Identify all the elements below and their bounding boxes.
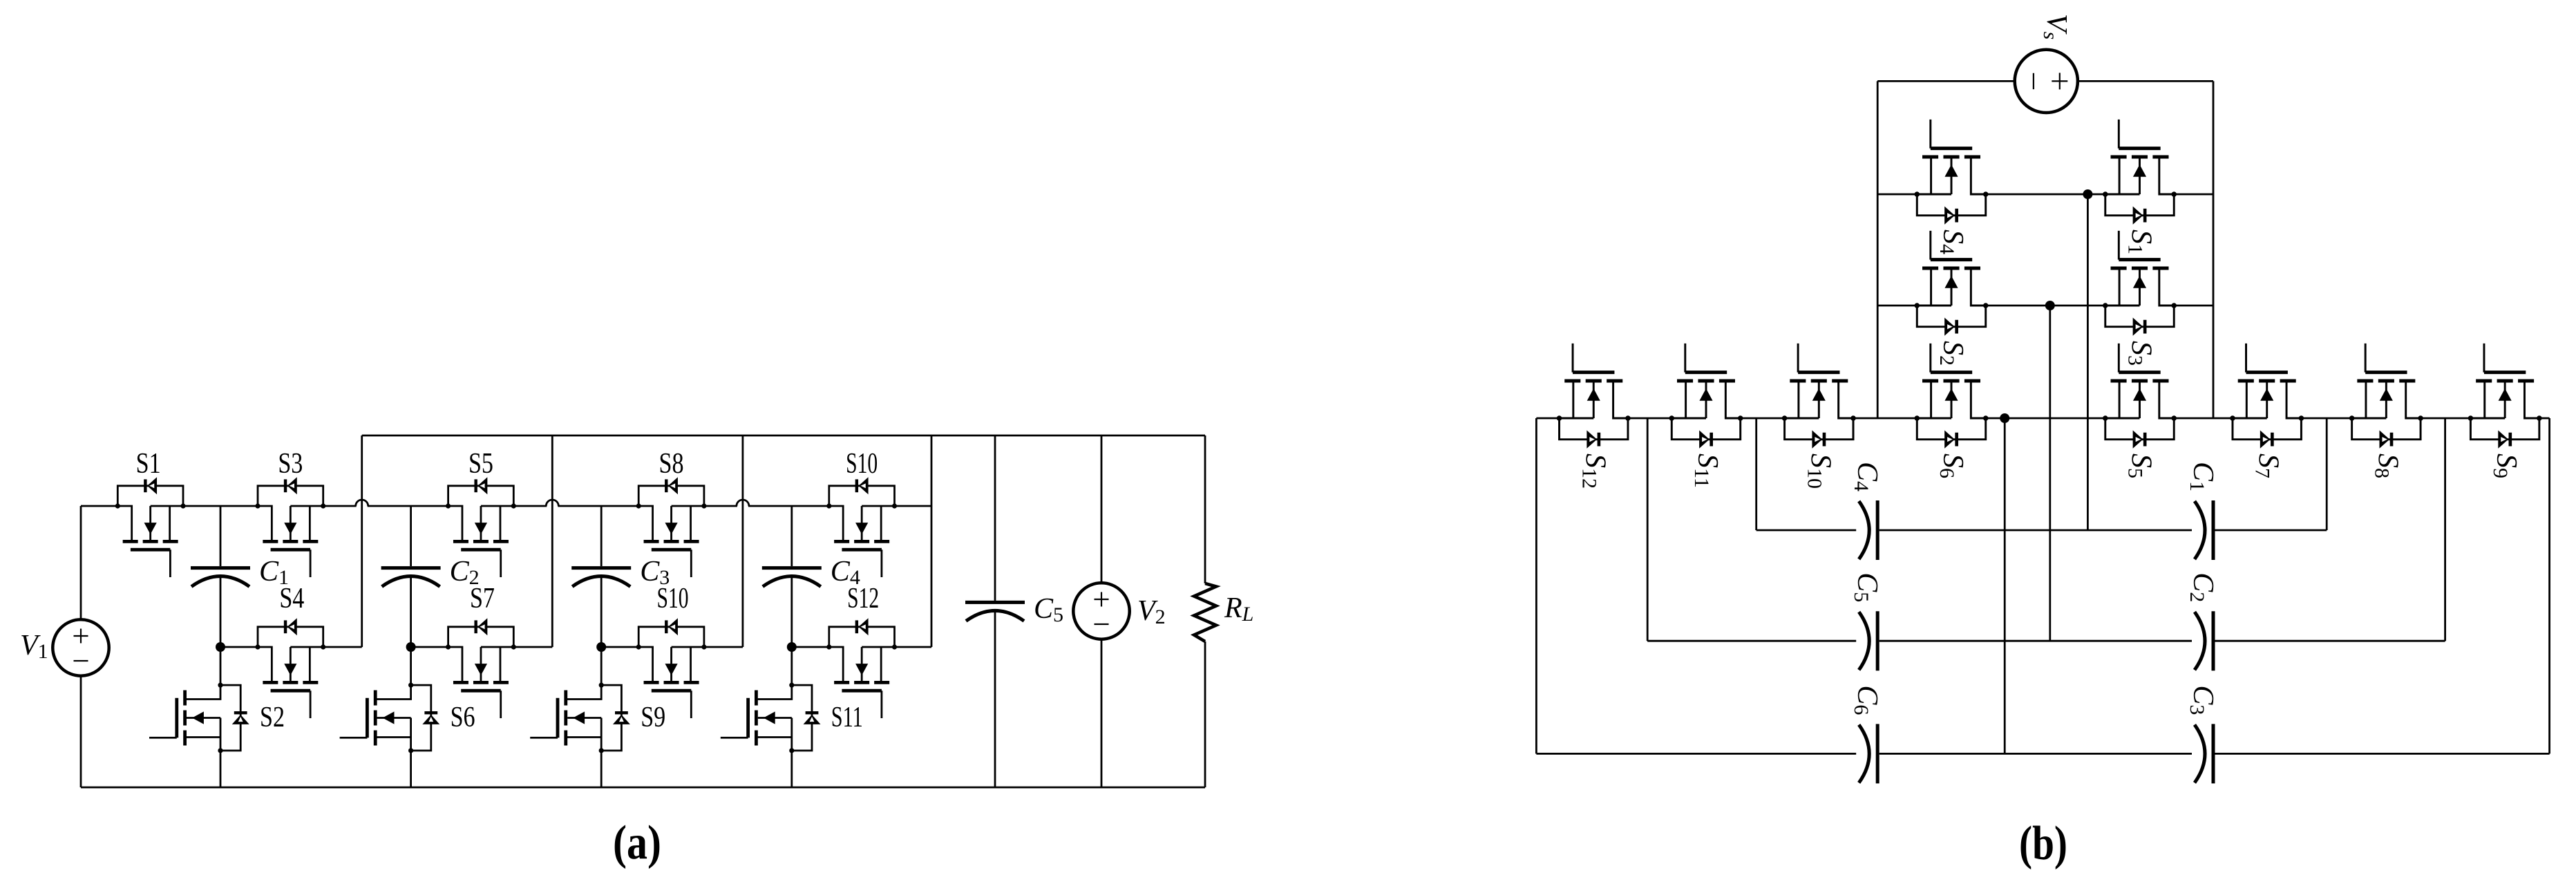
wire V1 bottom lead <box>80 676 82 787</box>
wire bottom row segment <box>2421 418 2470 420</box>
wire lower switch to bottom rail <box>600 751 603 787</box>
wire C3 rail right <box>2215 753 2550 755</box>
node dot cell 1 <box>216 642 225 652</box>
wire C1 to lower switch <box>220 576 222 686</box>
svg-text:S8: S8 <box>659 448 684 480</box>
node dot B <box>2045 301 2055 310</box>
transistor S10 (MOSFET with body diode) <box>1782 344 1856 449</box>
capacitor C1 <box>2195 500 2213 560</box>
wire node to mid switch <box>792 646 829 648</box>
transistor S2 (MOSFET with body diode) <box>1915 231 1989 336</box>
transistor S5 (MOSFET with body diode) <box>446 477 516 577</box>
transistor S5 (MOSFET with body diode) <box>2103 344 2177 449</box>
wire C5 rail left <box>1647 640 1856 642</box>
wire mid switch to bus vertical <box>895 646 932 648</box>
wire node to mid switch <box>220 646 258 648</box>
wire mid switch to bus vertical <box>704 646 743 648</box>
wire lower switch to bottom rail <box>410 751 412 787</box>
wire node B vertical <box>2049 306 2051 641</box>
wire input to S1 <box>81 505 117 507</box>
transistor S3 (MOSFET with body diode) <box>255 477 325 577</box>
transistor S9 (MOSFET with body diode) <box>2468 344 2542 449</box>
wire C5-C2 rail centre <box>1879 640 2192 642</box>
transistor S8 (MOSFET with body diode) <box>636 477 707 577</box>
capacitor C1 <box>191 568 250 587</box>
node dot A <box>2083 189 2092 199</box>
wire node C vertical <box>2004 418 2006 753</box>
capacitor C4 <box>1859 500 1877 560</box>
transistor S11 (MOSFET with body diode) <box>1669 344 1743 449</box>
capacitor C5 <box>965 602 1025 621</box>
node dot C <box>2000 413 2009 423</box>
wire bottom row segment <box>1536 418 1559 420</box>
wire bottom row segment <box>1628 418 1671 420</box>
wire S8 to hop <box>704 505 737 507</box>
capacitor C2 <box>381 568 441 587</box>
wire down to C1 rail <box>2326 418 2328 530</box>
wire bus vertical (crosses main wire at hop) <box>361 435 363 647</box>
transistor S6 (MOSFET with body diode) <box>1915 344 1989 449</box>
transistor S10 (MOSFET with body diode) <box>636 618 707 718</box>
wire top bus <box>362 435 1205 437</box>
wire bottom row segment <box>1853 418 1917 420</box>
wire S5 to hop <box>513 505 547 507</box>
wire main to C4 <box>790 506 793 566</box>
svg-text:S11: S11 <box>831 702 863 733</box>
wire row B right <box>2174 305 2213 307</box>
wire main to C1 <box>220 506 222 566</box>
wire node to mid switch <box>601 646 638 648</box>
transistor S12 (MOSFET with body diode) <box>826 618 897 718</box>
wire left leg <box>1877 81 1879 418</box>
wire C3 to lower switch <box>600 576 603 686</box>
transistor S10 (MOSFET with body diode) <box>826 477 897 577</box>
wire down to C3 rail <box>2548 418 2550 753</box>
wire C2 rail right <box>2215 640 2445 642</box>
resistor RL <box>1194 583 1216 641</box>
wire down to C4 rail <box>1755 418 1757 530</box>
wire hop to S10 (node with C4 branch) <box>748 505 829 507</box>
transistor S11 (vertical MOSFET with body diode) <box>721 683 821 753</box>
wire bottom row segment <box>2539 418 2550 420</box>
wire lower switch to bottom rail <box>220 751 222 787</box>
transistor S4 (MOSFET with body diode) <box>255 618 325 718</box>
node dot cell 3 <box>596 642 606 652</box>
wire down to C2 rail <box>2444 418 2446 641</box>
wire row A left <box>1877 194 1917 196</box>
wire row A centre <box>1986 194 2105 196</box>
wire row B left <box>1877 305 1917 307</box>
wire lower switch to bottom rail <box>790 751 793 787</box>
wire C4 rail left <box>1756 529 1857 532</box>
node dot cell 2 <box>406 642 416 652</box>
wire hop (no connection) <box>356 500 368 506</box>
transistor S6 (vertical MOSFET with body diode) <box>340 683 440 753</box>
wire bottom row segment <box>1741 418 1785 420</box>
wire right leg <box>2213 81 2215 418</box>
wire mid switch to bus vertical <box>513 646 552 648</box>
svg-text:S3: S3 <box>278 448 303 480</box>
transistor S1 (MOSFET with body diode) <box>2103 120 2177 225</box>
wire bottom row segment <box>1986 418 2105 420</box>
wire RL to bottom rail <box>1204 641 1206 787</box>
voltage source Vs <box>2015 50 2078 113</box>
svg-text:S10: S10 <box>846 448 878 480</box>
wire bus vertical (crosses main wire at hop) <box>551 435 553 647</box>
wire hop (no connection) <box>737 500 749 506</box>
svg-text:S1: S1 <box>136 448 161 480</box>
svg-text:S9: S9 <box>641 702 665 733</box>
transistor S7 (MOSFET with body diode) <box>2230 344 2304 449</box>
wire down to C5 rail <box>1647 418 1649 641</box>
svg-text:(b): (b) <box>2019 817 2067 870</box>
capacitor C4 <box>762 568 822 587</box>
wire hop (no connection) <box>546 500 558 506</box>
wire hop to S5 (node with C2 branch) <box>368 505 448 507</box>
wire node A vertical <box>2087 194 2089 530</box>
capacitor C3 <box>571 568 631 587</box>
transistor S1 (MOSFET with body diode) <box>115 477 186 577</box>
transistor S9 (vertical MOSFET with body diode) <box>530 683 630 753</box>
wire C6-C3 rail centre <box>1879 753 2192 755</box>
wire V1 top lead <box>80 506 82 619</box>
svg-text:S6: S6 <box>451 702 475 733</box>
wire mid switch to bus vertical <box>323 646 362 648</box>
capacitor C3 <box>2195 724 2213 783</box>
voltage source V1 <box>53 619 108 675</box>
wire bottom row segment <box>2301 418 2351 420</box>
wire main to C2 <box>410 506 412 566</box>
wire Vs left lead <box>1877 80 2015 82</box>
svg-text:S5: S5 <box>468 448 493 480</box>
svg-text:S2: S2 <box>260 702 285 733</box>
capacitor C2 <box>2195 611 2213 670</box>
wire bottom row segment <box>2174 418 2233 420</box>
wire bus vertical (crosses main wire at hop) <box>742 435 744 647</box>
voltage source V2 <box>1073 583 1129 639</box>
wire hop to S8 (node with C3 branch) <box>558 505 638 507</box>
wire right bus vertical <box>931 435 933 647</box>
wire node to mid switch <box>411 646 448 648</box>
wire S3 to hop <box>323 505 357 507</box>
capacitor C5 <box>1859 611 1877 670</box>
wire C2 to lower switch <box>410 576 412 686</box>
wire row A right <box>2174 194 2213 196</box>
wire main to C3 <box>600 506 603 566</box>
transistor S8 (MOSFET with body diode) <box>2349 344 2423 449</box>
wire top bus to C5 <box>994 435 996 601</box>
wire C1 rail right <box>2215 529 2327 532</box>
wire down to C6 rail <box>1535 418 1537 753</box>
transistor S12 (MOSFET with body diode) <box>1557 344 1631 449</box>
wire row B centre <box>1986 305 2105 307</box>
wire Vs right lead <box>2078 80 2213 82</box>
wire C4 to lower switch <box>790 576 793 686</box>
wire S10 to output node <box>895 505 932 507</box>
wire top bus to V2 <box>1101 435 1103 583</box>
transistor S3 (MOSFET with body diode) <box>2103 231 2177 336</box>
wire bottom rail <box>81 787 1205 789</box>
transistor S7 (MOSFET with body diode) <box>446 618 516 718</box>
capacitor C6 <box>1859 724 1877 783</box>
transistor S2 (vertical MOSFET with body diode) <box>149 683 249 753</box>
wire C6 rail left <box>1536 753 1856 755</box>
node dot cell 4 <box>787 642 797 652</box>
wire V2 to bottom rail <box>1101 639 1103 787</box>
wire C5 to bottom rail <box>994 610 996 787</box>
wire top bus to RL <box>1204 435 1206 583</box>
transistor S4 (MOSFET with body diode) <box>1915 120 1989 225</box>
wire C4-C1 rail centre <box>1879 529 2192 532</box>
svg-text:(a): (a) <box>613 816 661 870</box>
wire S1 to S3 (node with C1 branch) <box>183 505 258 507</box>
